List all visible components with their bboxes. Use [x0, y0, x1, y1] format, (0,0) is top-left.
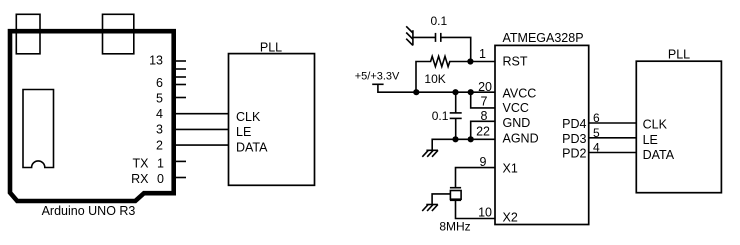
svg-text:10K: 10K: [424, 72, 445, 86]
svg-text:0.1: 0.1: [432, 109, 449, 123]
svg-text:VCC: VCC: [503, 101, 529, 115]
svg-text:8MHz: 8MHz: [439, 220, 470, 234]
svg-text:Arduino UNO R3: Arduino UNO R3: [42, 204, 136, 218]
svg-text:X2: X2: [503, 211, 518, 225]
svg-text:RX: RX: [131, 172, 149, 186]
svg-text:0.1: 0.1: [430, 14, 447, 28]
svg-text:PD3: PD3: [562, 132, 586, 146]
svg-text:22: 22: [476, 124, 490, 138]
svg-text:1: 1: [479, 47, 486, 61]
svg-text:5: 5: [156, 91, 163, 105]
svg-text:10: 10: [478, 206, 492, 220]
svg-text:X1: X1: [503, 162, 518, 176]
svg-text:GND: GND: [503, 116, 531, 130]
svg-text:PD4: PD4: [562, 117, 586, 131]
svg-text:7: 7: [481, 94, 488, 108]
svg-text:13: 13: [149, 54, 163, 68]
svg-text:3: 3: [156, 123, 163, 137]
svg-text:PLL: PLL: [260, 40, 282, 54]
svg-text:CLK: CLK: [643, 118, 668, 132]
svg-text:TX: TX: [133, 157, 150, 171]
svg-text:+5/+3.3V: +5/+3.3V: [355, 71, 400, 83]
svg-text:AGND: AGND: [503, 132, 539, 146]
svg-text:1: 1: [157, 157, 164, 171]
svg-text:DATA: DATA: [236, 140, 268, 154]
svg-text:ATMEGA328P: ATMEGA328P: [503, 31, 584, 45]
svg-text:PLL: PLL: [668, 48, 690, 62]
svg-text:PD2: PD2: [562, 147, 586, 161]
svg-text:CLK: CLK: [236, 110, 261, 124]
svg-text:2: 2: [156, 138, 163, 152]
svg-text:LE: LE: [643, 133, 658, 147]
svg-text:LE: LE: [236, 125, 251, 139]
svg-text:DATA: DATA: [643, 148, 675, 162]
svg-text:4: 4: [156, 107, 163, 121]
svg-text:6: 6: [156, 76, 163, 90]
svg-text:0: 0: [157, 172, 164, 186]
svg-text:RST: RST: [503, 55, 528, 69]
svg-text:AVCC: AVCC: [503, 86, 537, 100]
